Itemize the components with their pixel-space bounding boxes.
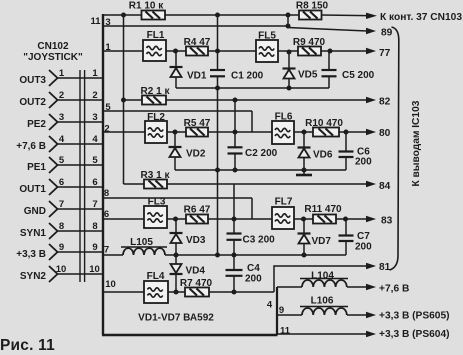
vertical bus 3 with capacitor C3 <box>233 184 235 255</box>
svg-text:4: 4 <box>267 300 273 311</box>
svg-text:5: 5 <box>92 155 98 166</box>
svg-text:+3,3 В (PS604): +3,3 В (PS604) <box>379 329 450 340</box>
svg-text:+3,3 В: +3,3 В <box>16 249 46 260</box>
wire pin10 row (FL4) <box>103 291 274 293</box>
svg-text:R2 1 к: R2 1 к <box>141 86 171 97</box>
wire connector pin 3 (PE2) to shield box edge <box>57 121 103 123</box>
filter FL3 <box>144 197 167 229</box>
svg-text:VD6: VD6 <box>313 150 333 161</box>
ground wire row1 <box>176 87 329 89</box>
wire drop from top wire to 89 wire <box>287 15 289 26</box>
capacitor C2 <box>228 147 278 159</box>
svg-text:6: 6 <box>92 177 97 188</box>
svg-text:К конт. 37 CN103: К конт. 37 CN103 <box>380 12 462 23</box>
svg-text:83: 83 <box>381 216 393 227</box>
svg-text:FL3: FL3 <box>148 197 166 208</box>
svg-text:10: 10 <box>89 264 100 275</box>
arrow +3,3 V PS604 <box>366 331 376 337</box>
resistor R11 <box>304 204 342 224</box>
cable double line <box>80 70 85 282</box>
node dots row2 <box>121 98 349 173</box>
svg-text:R11 470: R11 470 <box>304 204 342 215</box>
resistor R8 <box>296 1 329 20</box>
resistor R7 <box>180 278 213 297</box>
svg-text:3: 3 <box>92 112 97 123</box>
connector CN102 pin 9 chevron <box>49 244 58 260</box>
capacitor C3 <box>227 234 276 246</box>
svg-text:2: 2 <box>59 90 64 101</box>
diode VD7 <box>298 219 332 255</box>
wire connector pin 2 (OUT2) to shield box edge <box>57 99 103 101</box>
diode VD1 <box>170 51 207 88</box>
arrow 81 <box>366 263 376 269</box>
svg-text:VD1: VD1 <box>187 71 207 82</box>
svg-text:11: 11 <box>280 326 291 337</box>
capacitor C4 <box>226 255 263 292</box>
node dots row4 <box>174 290 237 295</box>
svg-text:R5 47: R5 47 <box>184 118 211 129</box>
svg-text:FL2: FL2 <box>147 112 165 123</box>
wire connector pin 8 (SYN1) to shield box edge <box>57 230 103 232</box>
svg-text:L104: L104 <box>311 271 334 282</box>
shield box right-bottom edge <box>276 287 278 335</box>
wire +7,6V row <box>277 286 366 288</box>
wire connector pin 7 (GND) to shield box edge <box>57 208 103 210</box>
node dots row1 <box>173 49 333 91</box>
arrow 89 <box>366 28 376 34</box>
svg-text:R4 47: R4 47 <box>184 37 211 48</box>
svg-text:4: 4 <box>59 134 65 145</box>
resistor R3 <box>141 170 171 189</box>
svg-text:CN102: CN102 <box>37 41 69 52</box>
wire +3,3V PS604 row <box>277 333 366 335</box>
svg-text:89: 89 <box>381 28 393 39</box>
svg-text:2: 2 <box>92 90 97 101</box>
svg-text:C2 200: C2 200 <box>245 148 278 159</box>
svg-text:4: 4 <box>92 134 98 145</box>
connector pin wires to cable and box edge <box>57 78 103 274</box>
arrow 82 <box>366 97 376 103</box>
svg-text:+3,3 В (PS605): +3,3 В (PS605) <box>379 311 450 322</box>
svg-text:C3 200: C3 200 <box>243 235 276 246</box>
arrow +3,3 V PS605 <box>366 312 376 318</box>
arrow 77 <box>366 48 376 54</box>
ground symbol <box>296 170 312 175</box>
resistor R4 <box>184 37 211 56</box>
connector CN102 title <box>23 41 83 63</box>
svg-text:81: 81 <box>379 262 391 273</box>
svg-text:7: 7 <box>104 245 109 256</box>
svg-text:L105: L105 <box>130 237 153 248</box>
svg-text:C5 200: C5 200 <box>342 70 375 81</box>
svg-text:7: 7 <box>92 199 97 210</box>
svg-text:OUT3: OUT3 <box>19 75 46 86</box>
shield box left edge <box>102 14 104 335</box>
inductor L106 <box>300 296 348 316</box>
resistor R1 <box>129 1 165 20</box>
svg-text:Рис. 11: Рис. 11 <box>0 337 55 354</box>
resistor R10 <box>305 118 343 137</box>
svg-text:11: 11 <box>90 16 101 27</box>
connector pin labels <box>16 75 46 282</box>
box pin numbers right side <box>267 300 291 337</box>
brace group IC103 <box>390 27 399 270</box>
diode VD5 <box>283 51 318 88</box>
filter FL6 <box>272 112 294 145</box>
svg-text:R10 470: R10 470 <box>305 118 343 129</box>
svg-text:К выводам IC103: К выводам IC103 <box>411 100 422 186</box>
svg-text:FL1: FL1 <box>147 30 165 41</box>
svg-text:+7,6 В: +7,6 В <box>16 141 46 152</box>
jog pin5 to FL6 <box>251 111 253 132</box>
svg-text:R1 10 к: R1 10 к <box>129 1 164 12</box>
resistor R2 <box>141 86 171 105</box>
svg-text:PE1: PE1 <box>27 162 46 173</box>
svg-text:R3 1 к: R3 1 к <box>141 170 171 181</box>
svg-text:FL7: FL7 <box>275 197 293 208</box>
svg-text:82: 82 <box>379 97 391 108</box>
svg-text:3: 3 <box>59 112 64 123</box>
resistor R9 <box>293 37 326 56</box>
svg-text:OUT1: OUT1 <box>19 184 46 195</box>
resistor R5 <box>184 118 211 137</box>
svg-text:1: 1 <box>92 68 98 79</box>
filter FL5 <box>256 31 278 63</box>
svg-text:OUT2: OUT2 <box>19 97 46 108</box>
diode VD4 (inverted) <box>170 255 206 292</box>
node dots row3 <box>173 217 348 258</box>
vertical bus C1/ground (x=217.5) <box>217 15 219 255</box>
svg-text:VD3: VD3 <box>186 235 206 246</box>
svg-text:+7,6 В: +7,6 В <box>379 284 409 295</box>
resistor R6 <box>184 205 211 224</box>
svg-text:C1 200: C1 200 <box>231 71 264 82</box>
svg-text:SYN1: SYN1 <box>20 228 47 239</box>
svg-text:8: 8 <box>59 221 64 232</box>
svg-text:SYN2: SYN2 <box>20 271 47 282</box>
svg-text:7: 7 <box>59 199 64 210</box>
connector CN102 pin 8 chevron <box>49 223 58 239</box>
svg-text:200: 200 <box>245 274 262 285</box>
shield box bottom edge <box>102 334 278 336</box>
inductor L104 <box>300 271 348 288</box>
arrow 84 <box>366 181 376 187</box>
wire pin5 row <box>103 110 252 112</box>
wire 81 elbow <box>274 266 366 292</box>
filter FL1 <box>143 30 166 61</box>
wire connector pin 4 (+7,6 В) to shield box edge <box>57 143 103 145</box>
svg-text:8: 8 <box>92 221 97 232</box>
connector pin numbers right of cable <box>89 68 100 275</box>
connector CN102 pin 7 chevron <box>49 201 58 217</box>
vertical bus 1 (x=123.5) <box>123 15 125 184</box>
ground wire row3 / pin7 <box>103 254 346 256</box>
arrow +7,6 V <box>366 284 376 290</box>
connector CN102 pin 1 chevron <box>49 70 58 86</box>
svg-text:200: 200 <box>355 157 372 168</box>
inductor L105 <box>121 237 167 255</box>
svg-text:77: 77 <box>379 48 391 59</box>
svg-text:200: 200 <box>355 242 372 253</box>
svg-text:6: 6 <box>59 177 64 188</box>
wire connector pin 6 (OUT1) to shield box edge <box>57 186 103 188</box>
wire connector pin 1 (OUT3) to shield box edge <box>57 77 103 79</box>
svg-text:FL4: FL4 <box>147 271 165 282</box>
diode VD6 <box>298 132 333 170</box>
svg-text:C7: C7 <box>357 231 370 242</box>
capacitor C7 <box>339 219 373 255</box>
wire pin3 to 89 <box>103 26 367 31</box>
connector pin numbers left of cable <box>56 68 67 275</box>
capacitor C5 <box>322 51 375 88</box>
svg-text:R8 150: R8 150 <box>296 1 329 12</box>
arrow to CN103 <box>366 13 377 19</box>
wire FL6 to R10 to 80 <box>294 131 366 133</box>
connector CN102 pin 6 chevron <box>49 179 58 195</box>
wire FL7 to R11 to 83 <box>294 218 366 220</box>
svg-text:5: 5 <box>59 155 65 166</box>
wire pin1 row (FL1 row) <box>103 50 366 52</box>
svg-text:9: 9 <box>59 242 64 253</box>
svg-text:L106: L106 <box>311 296 334 307</box>
svg-text:80: 80 <box>379 128 391 139</box>
connector chevrons <box>49 70 58 282</box>
svg-text:R9 470: R9 470 <box>293 37 326 48</box>
connector CN102 pin 3 chevron <box>49 114 58 130</box>
svg-text:FL6: FL6 <box>275 112 293 123</box>
svg-text:2: 2 <box>104 124 109 135</box>
capacitor C6 <box>339 132 373 170</box>
svg-text:VD1-VD7 ВА592: VD1-VD7 ВА592 <box>138 313 214 324</box>
wire connector pin 10 (SYN2) to shield box edge <box>57 273 103 275</box>
svg-text:1: 1 <box>59 68 65 79</box>
jog pin8 to FL7 <box>251 198 253 219</box>
svg-text:10: 10 <box>105 279 116 290</box>
wire pin6 row (FL3) <box>103 218 272 220</box>
svg-text:VD5: VD5 <box>298 70 318 81</box>
capacitor C1 <box>210 70 264 82</box>
filter FL2 <box>145 112 167 143</box>
svg-text:"JOYSTICK": "JOYSTICK" <box>23 52 83 63</box>
diode VD2 <box>169 132 206 170</box>
svg-text:VD2: VD2 <box>186 149 206 160</box>
diode VD3 <box>170 219 206 255</box>
wire connector pin 9 (+3,3 В) to shield box edge <box>57 251 103 253</box>
filter FL7 <box>272 197 294 230</box>
connector CN102 pin 2 chevron <box>49 92 58 108</box>
connector CN102 pin 4 chevron <box>49 136 58 152</box>
svg-text:R6 47: R6 47 <box>184 205 211 216</box>
wire connector pin 5 (PE1) to shield box edge <box>57 164 103 166</box>
node dots top wire <box>121 13 126 18</box>
arrow 83 <box>366 216 376 222</box>
wire R2 row (82) <box>124 99 367 101</box>
wire R3 row (84) <box>124 183 367 185</box>
connector CN102 pin 5 chevron <box>49 157 58 173</box>
svg-text:VD4: VD4 <box>186 266 206 277</box>
arrow 80 <box>366 129 376 135</box>
svg-text:C4: C4 <box>247 263 260 274</box>
svg-text:R7 470: R7 470 <box>180 278 213 289</box>
vertical bus 2 with capacitor C2 <box>234 100 236 170</box>
svg-text:PE2: PE2 <box>27 119 46 130</box>
wire pin2 row (FL2) <box>103 131 272 133</box>
box pin numbers on left edge <box>90 16 115 290</box>
wire pin11 top row <box>103 14 366 17</box>
svg-text:10: 10 <box>56 264 67 275</box>
filter FL4 <box>144 271 168 303</box>
connector CN102 pin 10 chevron <box>49 266 58 282</box>
svg-text:FL5: FL5 <box>258 31 276 42</box>
wire +3,3V PS605 row <box>277 314 366 316</box>
svg-text:VD7: VD7 <box>312 236 332 247</box>
svg-text:84: 84 <box>379 181 391 192</box>
wire pin8 row <box>103 197 252 199</box>
svg-text:9: 9 <box>92 242 97 253</box>
ground wire row2 <box>175 169 346 171</box>
svg-text:GND: GND <box>24 206 46 217</box>
